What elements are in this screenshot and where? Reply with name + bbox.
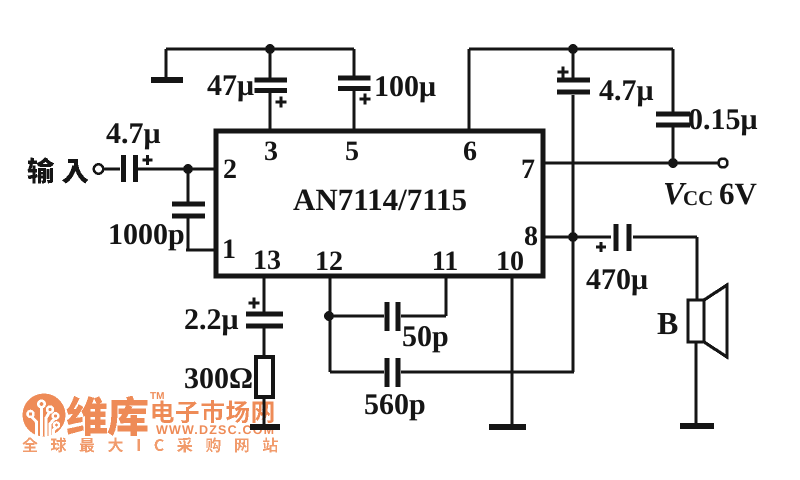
- capacitor 47u plates: [255, 80, 288, 91]
- capacitor 470u plates: [616, 224, 629, 251]
- svg-text:1: 1: [222, 234, 236, 265]
- svg-text:7: 7: [521, 154, 535, 185]
- svg-text:1000p: 1000p: [108, 218, 185, 251]
- capacitor 4.7u input plates: [124, 155, 136, 182]
- wire right top rail: [469, 47, 673, 50]
- label 2.2u: [184, 303, 239, 336]
- ground speaker: [680, 423, 714, 429]
- svg-text:4.7μ: 4.7μ: [599, 74, 654, 107]
- wire input terminal to cap: [103, 167, 120, 170]
- resistor 300ohm: [256, 357, 273, 397]
- svg-text:6V: 6V: [719, 176, 758, 211]
- label B speaker: [657, 305, 678, 341]
- wire 50p left: [329, 314, 384, 317]
- wire pin10 drop: [510, 276, 513, 425]
- pin 11: [432, 246, 458, 277]
- pin 10: [496, 246, 524, 277]
- speaker B: [688, 285, 727, 357]
- pin 8: [524, 221, 538, 252]
- svg-text:2: 2: [223, 154, 237, 185]
- watermark logo circle: [23, 394, 66, 437]
- svg-text:13: 13: [253, 245, 281, 276]
- ground pin10: [489, 424, 526, 430]
- wire 0.15u bottom: [671, 126, 674, 165]
- wire 0.15u top: [671, 49, 674, 112]
- polarity + 47u: [276, 97, 287, 108]
- wire 47u bottom to pin3: [268, 93, 271, 133]
- svg-text:12: 12: [315, 246, 343, 277]
- svg-text:10: 10: [496, 246, 524, 277]
- svg-text:4.7μ: 4.7μ: [106, 117, 161, 150]
- wire pin7 to Vcc terminal: [543, 161, 718, 164]
- wire pin6 up: [467, 49, 470, 133]
- ground top-left: [151, 77, 183, 83]
- node rail-4.7u junction: [568, 44, 578, 54]
- wire 100u top: [352, 49, 355, 76]
- pin 7: [521, 154, 535, 185]
- wire 100u bottom to pin5: [352, 91, 355, 133]
- label 50p: [402, 320, 449, 353]
- svg-text:AN7114/7115: AN7114/7115: [293, 182, 467, 217]
- label 4.7u bootstrap: [599, 74, 654, 107]
- wire 47u top: [268, 49, 271, 78]
- node rail-47u junction: [265, 44, 275, 54]
- svg-text:8: 8: [524, 221, 538, 252]
- Vcc terminal: [719, 159, 728, 168]
- wire 1000p top: [186, 169, 189, 202]
- polarity + 100u: [360, 94, 371, 105]
- wire 560p right: [401, 370, 574, 373]
- svg-text:50p: 50p: [402, 320, 449, 353]
- watermark 电子市场网: [153, 400, 274, 423]
- svg-text:2.2μ: 2.2μ: [184, 303, 239, 336]
- node pin8 junction: [568, 232, 578, 242]
- polarity + 4.7u bootstrap: [558, 67, 569, 78]
- svg-text:470μ: 470μ: [586, 263, 648, 296]
- pin 3: [264, 136, 278, 167]
- wire pin12 drop: [328, 276, 331, 372]
- wire speaker to ground: [694, 342, 697, 424]
- pin 2: [223, 154, 237, 185]
- wire resistor to ground: [262, 397, 265, 425]
- label 4.7u input: [106, 117, 161, 150]
- wire pin8 to 470u: [543, 235, 611, 238]
- wire 560p left: [330, 370, 384, 373]
- polarity + 2.2u: [249, 298, 260, 309]
- wire left top rail: [166, 47, 354, 50]
- wire 4.7u bottom down to 560p net: [571, 95, 574, 372]
- wire ground stub top-left: [164, 49, 167, 77]
- label Vcc 6V: [663, 175, 758, 211]
- wire 470u to speaker corner: [633, 235, 697, 238]
- wire speaker drop: [695, 237, 698, 301]
- capacitor 1000p plates: [172, 204, 205, 216]
- svg-text:11: 11: [432, 246, 458, 277]
- pin 1: [222, 234, 236, 265]
- label 470u: [586, 263, 648, 296]
- label 300ohm: [184, 362, 253, 395]
- watermark TM: [150, 391, 164, 402]
- polarity + 470u: [596, 242, 606, 252]
- svg-text:100μ: 100μ: [374, 70, 436, 103]
- svg-text:560p: 560p: [364, 388, 426, 421]
- watermark 维库: [67, 396, 148, 436]
- input terminal: [94, 164, 103, 173]
- capacitor 50p plates: [387, 302, 398, 331]
- IC U1 AN7114/7115 box: [216, 131, 543, 276]
- label 100u: [374, 70, 436, 103]
- capacitor 0.15u plates: [656, 114, 690, 125]
- svg-text:B: B: [657, 305, 678, 341]
- wire pin13 drop: [262, 276, 265, 312]
- svg-text:TM: TM: [150, 391, 164, 402]
- svg-text:3: 3: [264, 136, 278, 167]
- node pin12 junction: [324, 311, 334, 321]
- ground below resistor: [250, 424, 280, 430]
- watermark www.dzsc.com: [156, 423, 275, 437]
- label 0.15u: [688, 103, 758, 136]
- svg-text:47μ: 47μ: [207, 69, 254, 102]
- wire 50p right: [401, 314, 446, 317]
- label 1000p: [108, 218, 185, 251]
- capacitor 2.2u plates: [246, 314, 283, 326]
- node Vcc junction: [668, 158, 678, 168]
- wire 2.2u to resistor: [262, 327, 265, 357]
- capacitor 560p plates: [387, 358, 398, 387]
- capacitor 4.7u bootstrap plates: [557, 80, 590, 92]
- svg-text:CC: CC: [683, 186, 713, 210]
- wire 4.7u top: [571, 49, 574, 78]
- watermark 全球最大IC采购网站: [22, 437, 277, 452]
- label 47u: [207, 69, 254, 102]
- wire to pin1: [186, 248, 216, 251]
- svg-text:6: 6: [463, 136, 477, 167]
- pin 5: [345, 136, 359, 167]
- svg-text:300Ω: 300Ω: [184, 362, 253, 395]
- label input 输入: [28, 157, 89, 183]
- svg-text:5: 5: [345, 136, 359, 167]
- svg-text:0.15μ: 0.15μ: [688, 103, 758, 136]
- wire input cap to pin2: [138, 167, 216, 170]
- pin 12: [315, 246, 343, 277]
- capacitor 100u plates: [338, 78, 371, 89]
- pin 13: [253, 245, 281, 276]
- label 560p: [364, 388, 426, 421]
- wire pin11 up: [444, 276, 447, 316]
- node input junction: [183, 164, 193, 174]
- wire 1000p bottom: [186, 217, 189, 251]
- polarity + 4.7u input: [143, 155, 153, 165]
- pin 6: [463, 136, 477, 167]
